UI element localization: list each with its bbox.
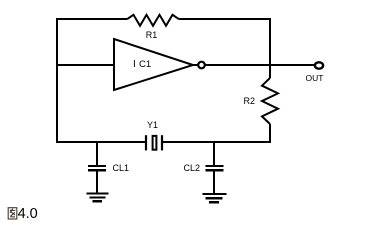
wire inverter input	[57, 64, 114, 66]
wire apex stub	[193, 64, 198, 66]
resistor R2	[262, 78, 278, 124]
wire bottom-right horizontal	[162, 141, 271, 143]
wire top-right horizontal segment	[179, 18, 271, 20]
wire CL2 stem upper	[213, 142, 215, 166]
svg-text:R1: R1	[146, 30, 158, 40]
figure caption 图4.0	[8, 206, 38, 222]
inverter output bubble	[198, 62, 205, 69]
svg-text:CL1: CL1	[113, 163, 130, 173]
svg-text:OUT: OUT	[306, 73, 324, 83]
op-amp U1 inverter triangle IC1	[114, 39, 193, 90]
node OUT terminal	[315, 62, 323, 68]
capacitor CL1	[88, 166, 106, 170]
crystal Y1	[146, 135, 162, 150]
ground (CL2)	[203, 194, 227, 202]
svg-text:CL2: CL2	[184, 163, 201, 173]
wire CL2 stem lower	[213, 170, 215, 194]
svg-text:R2: R2	[244, 96, 256, 106]
svg-text:C1: C1	[139, 59, 151, 70]
ground (CL1)	[87, 194, 109, 202]
wire right vertical upper	[269, 19, 271, 78]
wire bottom-left horizontal	[56, 141, 145, 143]
wire right vertical lower	[269, 124, 271, 143]
wire top-left horizontal segment	[57, 18, 127, 20]
wire CL1 stem lower	[96, 170, 98, 194]
svg-text:Y1: Y1	[147, 120, 158, 130]
svg-text:I: I	[133, 59, 136, 70]
wire left vertical	[56, 18, 58, 143]
resistor R1	[127, 15, 179, 26]
wire CL1 stem upper	[96, 142, 98, 166]
capacitor CL2	[206, 166, 224, 170]
svg-text:4.0: 4.0	[18, 206, 38, 222]
wire inverter output to OUT	[205, 64, 314, 66]
